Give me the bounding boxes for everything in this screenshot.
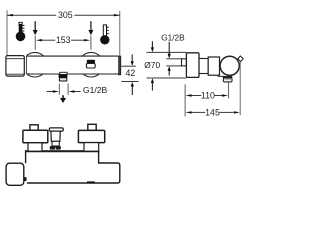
- front G1/2B tick right: [67, 84, 69, 95]
- side dim left shared tick: [184, 84, 186, 116]
- pictorial left temperature knob: [6, 163, 24, 185]
- svg-text:145: 145: [205, 108, 220, 118]
- side dim 42 top line: [121, 65, 135, 67]
- front view right end cap: [119, 56, 121, 75]
- dimension 153 down arrow right: [88, 21, 93, 35]
- side dim 42 down arrow: [131, 54, 134, 66]
- side dim 42 bottom line: [121, 81, 138, 83]
- side dim 110 arrowheads: [186, 94, 192, 96]
- side G1/2B up arrow: [168, 66, 171, 76]
- side dim O70 down arrow: [151, 41, 154, 52]
- front G1/2B tick left: [58, 84, 60, 95]
- dimension 153 tick right: [90, 36, 92, 50]
- side G1/2B bottom ref line: [166, 65, 181, 67]
- dimension 305 arrowheads: [7, 14, 13, 16]
- side view knob: [186, 53, 199, 78]
- front view knob-body joint: [25, 56, 27, 74]
- side dim O70 up arrow: [151, 78, 154, 90]
- pictorial body tube: [26, 151, 120, 183]
- side G1/2B top ref line: [166, 58, 181, 60]
- pictorial right union escutcheon: [78, 130, 104, 142]
- side view outlet flange: [223, 76, 232, 78]
- pictorial right union tab: [88, 124, 96, 130]
- pictorial knob joint tick: [25, 177, 27, 181]
- side G1/2B down leader: [168, 42, 171, 59]
- dimension 305 extension line left: [6, 10, 8, 58]
- front view diverter button: [86, 60, 95, 68]
- side dim 145 right extension line: [239, 62, 241, 115]
- svg-text:Ø70: Ø70: [144, 60, 160, 70]
- front G1/2B leader left: [47, 90, 59, 92]
- side view escutcheon circle: [220, 56, 239, 75]
- svg-text:153: 153: [56, 35, 71, 45]
- front view escutcheon right: [79, 52, 104, 77]
- dimension 153 down arrow left: [33, 21, 38, 35]
- side view nipple: [182, 59, 187, 66]
- svg-text:G1/2B: G1/2B: [161, 32, 185, 42]
- front G1/2B leader right: [69, 90, 81, 92]
- side view body block: [208, 57, 219, 75]
- pictorial right union stem: [84, 143, 99, 152]
- thermometer hot (filled): [16, 22, 26, 41]
- front flow down arrow: [60, 95, 66, 103]
- pictorial outlet tick on body bottom: [87, 181, 95, 183]
- pictorial body top edge emphasis: [26, 150, 99, 152]
- svg-text:110: 110: [201, 91, 215, 101]
- pictorial left union tab: [30, 125, 38, 131]
- side dim 145 line: [191, 111, 233, 113]
- side view body bottom joint line: [218, 75, 224, 77]
- front view outlet stub: [59, 72, 68, 81]
- pictorial middle diverter dark feet: [50, 146, 61, 150]
- svg-text:G1/2B: G1/2B: [83, 85, 108, 95]
- side view neck: [199, 59, 208, 74]
- side dim 110 line: [191, 95, 222, 97]
- thermometer cold (outline): [100, 25, 109, 45]
- dimension 305 line: [7, 14, 120, 16]
- side view outlet connector: [223, 78, 232, 82]
- side dim 42 up arrow: [131, 82, 134, 95]
- dimension 153 tick left: [34, 36, 36, 50]
- side view bleed nub: [238, 56, 244, 62]
- pictorial left union stem: [28, 143, 42, 151]
- dimension 153 line: [41, 39, 85, 41]
- dimension 153 arrowheads: [36, 39, 42, 41]
- mask patch left of body: [22, 50, 27, 80]
- pictorial left union escutcheon: [23, 130, 48, 143]
- front view left knob: [6, 56, 24, 77]
- svg-text:305: 305: [58, 10, 73, 20]
- front view escutcheon left: [23, 52, 48, 77]
- side dim O70 bottom ref line: [147, 77, 187, 79]
- pictorial middle diverter stem: [51, 131, 60, 141]
- front view body tube: [26, 56, 119, 74]
- pictorial middle diverter cap: [49, 128, 63, 131]
- side dim O70 top ref line: [147, 51, 187, 53]
- dimension 305 extension line right: [119, 11, 121, 56]
- side dim 110 right tick: [228, 82, 230, 98]
- pictorial middle diverter base: [52, 141, 59, 146]
- side dim 145 arrowheads: [186, 111, 192, 113]
- svg-text:42: 42: [126, 68, 136, 78]
